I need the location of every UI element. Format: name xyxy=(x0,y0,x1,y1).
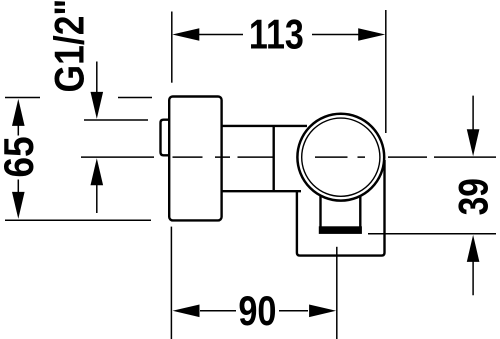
valve body top line xyxy=(222,125,307,127)
arrow 39 down xyxy=(467,129,480,156)
arrowheads xyxy=(12,28,479,317)
arrow 65 up xyxy=(12,99,25,126)
arrow 90 right xyxy=(309,305,336,318)
dim 65 line xyxy=(17,125,19,192)
handle circle inner ring xyxy=(302,118,380,196)
arrow G1/2 down xyxy=(91,92,104,119)
dim 113 extension right xyxy=(385,10,387,133)
body collar T-line xyxy=(273,126,275,191)
arrow G1/2 up xyxy=(91,158,104,185)
escutcheon plate xyxy=(169,97,221,221)
G1/2 leader shafts xyxy=(96,62,98,214)
arrow 113 right xyxy=(358,28,385,41)
dim 113 line xyxy=(184,34,372,36)
spout left edge xyxy=(319,193,321,227)
arrow 65 down xyxy=(12,192,25,219)
arrow 113 left xyxy=(172,28,199,41)
spout right edge xyxy=(359,193,361,227)
dim 90 extension right xyxy=(336,247,338,339)
dim 39 shafts xyxy=(472,96,474,296)
svg-text:G1/2": G1/2" xyxy=(47,0,93,92)
dim 113 extension left xyxy=(171,12,173,83)
dim 65 ref lines xyxy=(5,98,152,221)
svg-text:39: 39 xyxy=(450,178,496,215)
centerline xyxy=(81,156,496,158)
dim 90 extension left xyxy=(170,227,172,339)
handle circle outer xyxy=(297,114,384,201)
valve body bottom line xyxy=(222,190,301,192)
dim 39 bottom ref xyxy=(368,233,496,235)
dim 90 line xyxy=(200,310,308,312)
G1/2 ref line xyxy=(84,119,148,121)
G1/2 nipple xyxy=(161,120,171,156)
arrow 90 left xyxy=(173,305,200,318)
svg-text:113: 113 xyxy=(249,13,304,59)
arrow 39 up xyxy=(467,235,480,262)
outlet block xyxy=(297,160,385,256)
svg-text:65: 65 xyxy=(0,136,43,177)
svg-text:90: 90 xyxy=(238,289,276,335)
aerator bar xyxy=(319,226,362,234)
